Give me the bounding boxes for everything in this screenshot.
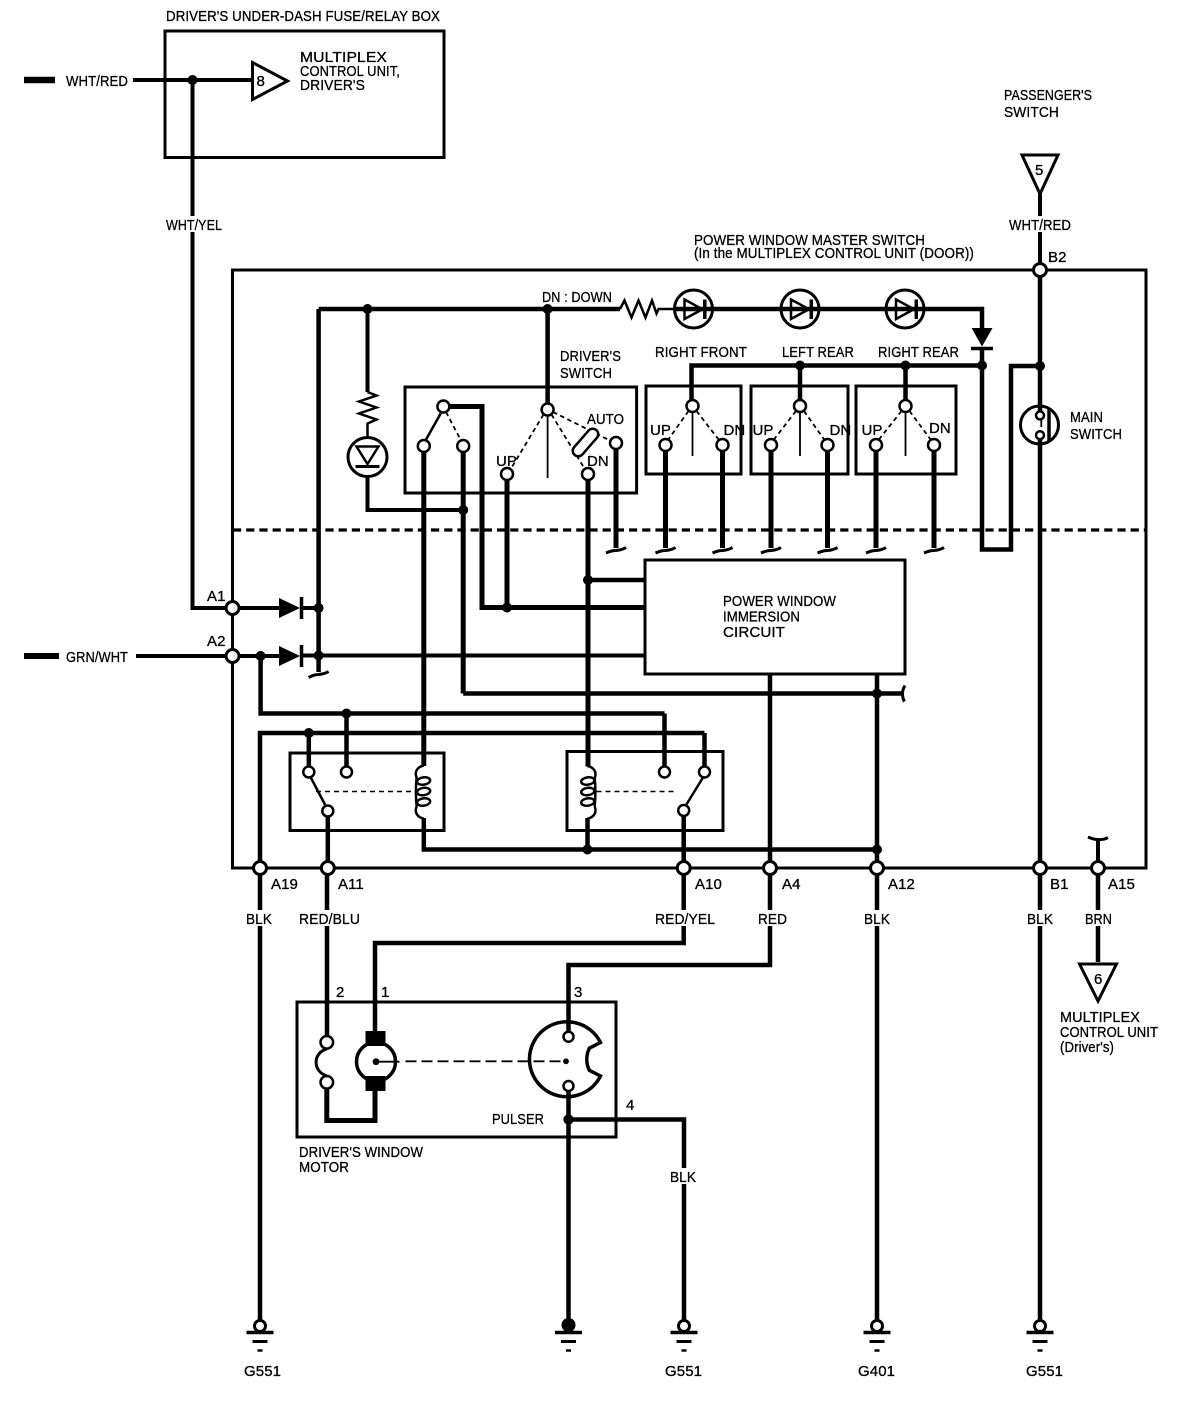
wire WHT/YEL vertical: [193, 80, 227, 608]
dashed link pivot to DN: [552, 415, 585, 469]
ground pulser (solid): [555, 1318, 582, 1351]
label driver's window motor: [299, 1144, 424, 1176]
junction bus850 / A12 drop: [872, 845, 882, 855]
dashed link left pair: [446, 412, 461, 441]
svg-text:A15: A15: [1108, 876, 1135, 893]
svg-text:G551: G551: [665, 1363, 702, 1380]
svg-text:AUTO: AUTO: [587, 411, 624, 428]
junction DN / immersion entry: [583, 575, 593, 585]
buffer 8 multiplex control unit driver's: [253, 49, 401, 100]
driver's switch caption: [560, 348, 621, 382]
wire left vertical to A1/A2: [316, 309, 321, 672]
svg-text:RIGHT FRONT: RIGHT FRONT: [655, 344, 747, 361]
wire relay1 coil to bus850: [424, 818, 877, 850]
switch box RIGHT FRONT: [646, 386, 741, 474]
right rear common contact: [900, 400, 912, 412]
svg-text:RIGHT REAR: RIGHT REAR: [878, 344, 959, 361]
wire relay1 right contact drop: [344, 714, 349, 767]
svg-text:DRIVER'S: DRIVER'S: [300, 77, 365, 94]
diode A2: [279, 645, 302, 667]
driver's left pair blade: [426, 412, 442, 441]
thermal breaker contact bottom: [321, 1076, 334, 1089]
label BLK A19: [243, 910, 276, 928]
svg-text:PULSER: PULSER: [492, 1111, 544, 1128]
left rear lever: [799, 412, 801, 456]
resistor horizontal on DN bus: [620, 301, 675, 318]
svg-text:UP: UP: [650, 422, 671, 439]
svg-text:3: 3: [574, 984, 582, 1001]
svg-text:RED/YEL: RED/YEL: [655, 911, 715, 928]
driver's switch pivot contact: [542, 404, 554, 416]
power window immersion circuit box: [645, 560, 905, 674]
wire common bus y365: [692, 366, 983, 401]
svg-text:SWITCH: SWITCH: [1004, 104, 1059, 121]
right front common contact: [687, 400, 699, 412]
wire WHT/RED passenger drop: [1038, 194, 1042, 264]
stub terminator: [656, 548, 676, 554]
relay1 right contact: [341, 767, 352, 778]
driver's left pair left contact: [418, 440, 430, 452]
wire right front UP stub: [663, 451, 668, 548]
svg-text:CIRCUIT: CIRCUIT: [723, 624, 785, 641]
wire right rear DN stub: [932, 451, 937, 548]
svg-text:(Driver's): (Driver's): [1060, 1039, 1114, 1056]
svg-text:WHT/YEL: WHT/YEL: [166, 217, 222, 234]
junction A2 diode / left vertical: [314, 651, 324, 661]
left rear DN contact: [822, 439, 834, 451]
driver's switch lever line: [547, 416, 549, 479]
wire box2 common drop: [798, 366, 803, 401]
wire A15 BRN: [1096, 875, 1101, 963]
svg-text:DN : DOWN: DN : DOWN: [542, 289, 612, 306]
svg-text:2: 2: [336, 984, 344, 1001]
wire relay2 coil to bus850: [585, 818, 590, 850]
svg-text:8: 8: [257, 73, 265, 90]
relay1 blade: [311, 777, 327, 807]
svg-text:SWITCH: SWITCH: [560, 365, 612, 382]
wire DN to immersion entry: [588, 578, 645, 583]
wire bus 694: [461, 452, 466, 694]
svg-text:BLK: BLK: [670, 1169, 696, 1186]
dashed link pivot to UP: [511, 415, 544, 469]
junction bus733 / relay1 left contact: [304, 728, 314, 738]
relay2 left contact: [659, 767, 670, 778]
left rear common contact: [794, 400, 806, 412]
node B1: [1034, 862, 1047, 875]
svg-text:A19: A19: [271, 876, 298, 893]
wire bus733 to relay2 right contact: [702, 733, 707, 767]
junction bus850 / relay2 coil: [583, 845, 593, 855]
junction A2 / bus713 branch: [256, 651, 266, 661]
right front lever: [692, 412, 694, 456]
wire diode chain: [675, 309, 982, 328]
connector triangle 5 passenger's switch: [1022, 155, 1058, 194]
svg-text:LEFT REAR: LEFT REAR: [782, 344, 854, 361]
svg-text:SWITCH: SWITCH: [1070, 426, 1122, 443]
connector triangle 6 multiplex control unit: [1080, 964, 1117, 1001]
stub terminator below A2 diode: [309, 672, 329, 678]
svg-text:MAIN: MAIN: [1070, 409, 1103, 426]
svg-text:DRIVER'S: DRIVER'S: [560, 348, 621, 365]
thermal breaker arc: [316, 1049, 327, 1076]
svg-text:A2: A2: [207, 633, 226, 650]
wire right rear UP stub: [874, 451, 879, 548]
wire GRN/WHT feed stub: [24, 653, 59, 659]
svg-text:BRN: BRN: [1085, 911, 1112, 928]
wire B2 vertical lower to B1: [1038, 446, 1043, 862]
stub terminator: [866, 548, 886, 554]
svg-text:DN: DN: [587, 453, 609, 470]
svg-text:BLK: BLK: [246, 911, 272, 928]
svg-text:A4: A4: [782, 876, 801, 893]
wire driver's pivot drop: [545, 309, 550, 404]
relay2 bottom contact: [678, 805, 689, 816]
right rear DN contact: [928, 439, 940, 451]
stub terminator AUTO: [606, 548, 626, 554]
wire top bus DN: [319, 307, 620, 312]
label WHT/YEL: [163, 216, 226, 234]
relay 2 box: [567, 752, 723, 831]
diode lamp RIGHT REAR: [886, 290, 924, 328]
wire bus 733: [260, 733, 705, 862]
wire B2 vertical upper: [1038, 277, 1043, 407]
pulser: [529, 1022, 600, 1097]
node A15: [1092, 862, 1105, 875]
node B2: [1034, 264, 1047, 277]
power window master switch box: [233, 270, 1147, 868]
svg-text:RED: RED: [758, 911, 787, 928]
ground G401: [858, 1321, 895, 1381]
svg-text:B2: B2: [1048, 249, 1067, 266]
wire A12 BLK to ground: [875, 875, 880, 1321]
junction UP / immersion wire: [502, 603, 512, 613]
LED indicator circle: [348, 438, 387, 477]
node A11: [321, 862, 334, 875]
svg-text:BLK: BLK: [864, 911, 890, 928]
svg-text:UP: UP: [753, 422, 774, 439]
wire A4 drop: [768, 674, 773, 862]
svg-text:(In the MULTIPLEX CONTROL UNIT: (In the MULTIPLEX CONTROL UNIT (DOOR)): [694, 245, 974, 262]
junction bus365 box3: [901, 361, 911, 371]
wire U-link diode bus to main switch: [982, 366, 1036, 550]
power window master switch caption: [694, 232, 974, 262]
svg-text:WHT/RED: WHT/RED: [66, 73, 128, 90]
svg-text:PASSENGER'S: PASSENGER'S: [1004, 87, 1092, 104]
junction bus694 / A12 drop: [872, 689, 882, 699]
right front dashed links: [668, 411, 689, 440]
wire left rear DN stub: [825, 451, 830, 548]
dashed link pivot to AUTO: [553, 412, 610, 441]
node A12: [871, 862, 884, 875]
svg-text:BLK: BLK: [1027, 911, 1053, 928]
terminator bus694 right end: [903, 686, 906, 702]
wire A2 row: [239, 654, 279, 658]
driver's DN contact: [582, 468, 594, 480]
svg-text:4: 4: [626, 1097, 634, 1114]
svg-text:G551: G551: [1026, 1363, 1063, 1380]
junction WHT/RED / WHT/YEL: [188, 75, 198, 85]
right rear lever: [905, 412, 907, 456]
left rear UP contact: [765, 439, 777, 451]
svg-text:UP: UP: [862, 422, 883, 439]
wire A4 RED to pulser pin3: [569, 875, 771, 1033]
label RED/BLU: [296, 910, 363, 928]
AUTO lever capsule: [571, 426, 601, 458]
svg-text:RED/BLU: RED/BLU: [299, 911, 360, 928]
svg-text:B1: B1: [1050, 876, 1069, 893]
driver's switch box: [405, 387, 637, 493]
junction A1 / left vertical: [314, 603, 324, 613]
relay1 bottom contact: [322, 806, 333, 817]
wire breaker to motor lower terminal: [327, 1089, 375, 1121]
svg-text:G551: G551: [244, 1363, 281, 1380]
node A1: [226, 602, 239, 615]
svg-text:IMMERSION: IMMERSION: [723, 609, 800, 626]
label BRN: [1082, 910, 1116, 928]
svg-text:MOTOR: MOTOR: [299, 1159, 349, 1176]
junction bus365 diode chain: [977, 361, 987, 371]
motor M: [357, 1031, 396, 1091]
right front DN contact: [717, 439, 729, 451]
label MAIN SWITCH: [1070, 409, 1122, 443]
svg-text:5: 5: [1035, 162, 1043, 179]
svg-text:6: 6: [1094, 971, 1102, 988]
wire left rear UP stub: [769, 451, 774, 548]
switch box LEFT REAR: [751, 386, 848, 474]
wire right front DN stub: [720, 451, 725, 548]
driver's AUTO contact: [610, 437, 622, 449]
stub terminator: [761, 548, 781, 554]
relay2 blade: [686, 778, 704, 807]
junction top bus / LED branch: [363, 304, 373, 314]
junction LED wire / bus 694 vertical: [458, 505, 468, 515]
node A10: [677, 862, 690, 875]
right rear UP contact: [870, 439, 882, 451]
wire GRN/WHT to A2: [136, 654, 226, 658]
relay2 coil: [581, 766, 596, 819]
label BLK B1: [1024, 910, 1057, 928]
wire relay2 bottom contact to A10: [681, 816, 686, 862]
svg-text:DN: DN: [929, 420, 951, 437]
ground G551 right: [1026, 1321, 1063, 1381]
wire A19 BLK to ground: [258, 875, 263, 1321]
wire B1 BLK to ground: [1038, 875, 1043, 1321]
wire LED to bus 694: [368, 477, 464, 511]
wire pin4 BLK branch: [569, 1120, 685, 1321]
relay1 left contact: [303, 767, 314, 778]
wire A10 RED/YEL to motor pin1: [375, 875, 684, 1034]
wire A2 to immersion entry: [303, 654, 645, 658]
driver's under-dash fuse/relay box: [165, 8, 444, 158]
right rear dashed links: [879, 411, 902, 440]
svg-text:G401: G401: [858, 1363, 895, 1380]
node A2: [226, 650, 239, 663]
stub terminator: [818, 548, 838, 554]
svg-text:A12: A12: [888, 876, 915, 893]
thermal breaker contact top: [321, 1036, 334, 1049]
label BLK A12: [861, 910, 894, 928]
diode A1: [279, 597, 319, 619]
relay2 right contact: [699, 767, 710, 778]
wire pulser pin4 down: [566, 1091, 571, 1320]
wire bus713 to relay2 left contact: [662, 714, 667, 767]
switch box RIGHT REAR: [856, 386, 956, 474]
driver's window motor box: [297, 1002, 616, 1137]
label multiplex control unit driver's: [1060, 1009, 1158, 1056]
passenger's switch label: [1004, 87, 1092, 121]
wire box3 common drop: [903, 366, 908, 401]
svg-text:GRN/WHT: GRN/WHT: [66, 649, 128, 666]
wire relay1 left contact drop: [307, 733, 312, 767]
wire WHT/RED feed stub: [24, 77, 55, 84]
svg-text:UP: UP: [496, 453, 517, 470]
ground G551 middle: [665, 1321, 702, 1381]
svg-text:1: 1: [381, 984, 389, 1001]
svg-text:A11: A11: [338, 876, 364, 893]
svg-text:WHT/RED: WHT/RED: [1009, 217, 1071, 234]
stub A15: [1096, 841, 1100, 862]
wire relay1 bottom contact to A11: [326, 817, 331, 862]
node A19: [254, 862, 267, 875]
label WHT/RED passenger: [1006, 216, 1072, 234]
ground G551 left: [244, 1321, 281, 1381]
right front UP contact: [660, 439, 672, 451]
wire A12 drop: [875, 674, 880, 862]
label RED/YEL: [652, 910, 718, 928]
svg-text:DN: DN: [724, 422, 746, 439]
svg-text:POWER WINDOW: POWER WINDOW: [723, 593, 837, 610]
driver's left pair right contact: [457, 440, 469, 452]
svg-text:A10: A10: [695, 876, 722, 893]
dashed separator line: [233, 528, 1146, 531]
junction main switch vertical: [1035, 361, 1045, 371]
wire A1 to diode: [239, 606, 279, 610]
wire driver's left pair left contact to relay1 coil: [421, 452, 426, 766]
left rear dashed links: [774, 411, 797, 440]
svg-text:A1: A1: [207, 588, 226, 605]
driver's UP contact: [501, 468, 513, 480]
diode down at x982: [971, 328, 993, 367]
wire WHT/RED to buffer: [133, 78, 253, 82]
relay2 dashed link: [597, 791, 677, 793]
resistor vertical LED branch: [359, 309, 377, 438]
junction pin4: [563, 1114, 573, 1124]
terminator A15: [1088, 837, 1108, 840]
label BLK pin4: [667, 1168, 700, 1186]
wire AUTO stub: [614, 449, 619, 548]
diode lamp LEFT REAR: [781, 290, 819, 328]
relay1 coil: [416, 766, 431, 819]
node A4: [764, 862, 777, 875]
stub terminator: [713, 548, 733, 554]
wire A11 RED/BLU down: [325, 875, 330, 1037]
junction top bus / driver's switch pivot: [543, 304, 553, 314]
wire driver's DN drop to relay 2 coil: [586, 480, 591, 767]
relay1 dashed link: [316, 791, 415, 793]
junction bus713 / relay1 right contact: [342, 709, 352, 719]
wire thick path left pair to immersion: [449, 407, 645, 608]
junction bus365 box2: [795, 361, 805, 371]
wire driver's UP drop: [505, 480, 510, 608]
svg-text:DRIVER'S UNDER-DASH FUSE/RELAY: DRIVER'S UNDER-DASH FUSE/RELAY BOX: [166, 8, 440, 25]
main switch: [1021, 406, 1059, 446]
driver's left pair top contact: [437, 401, 449, 413]
stub terminator: [924, 548, 944, 554]
wire bus 713: [261, 656, 665, 714]
diode lamp RIGHT FRONT: [675, 290, 713, 328]
svg-text:DN: DN: [830, 422, 852, 439]
relay 1 box: [290, 753, 444, 831]
dashed motor-pulser link: [379, 1061, 400, 1063]
label RED: [755, 910, 791, 928]
